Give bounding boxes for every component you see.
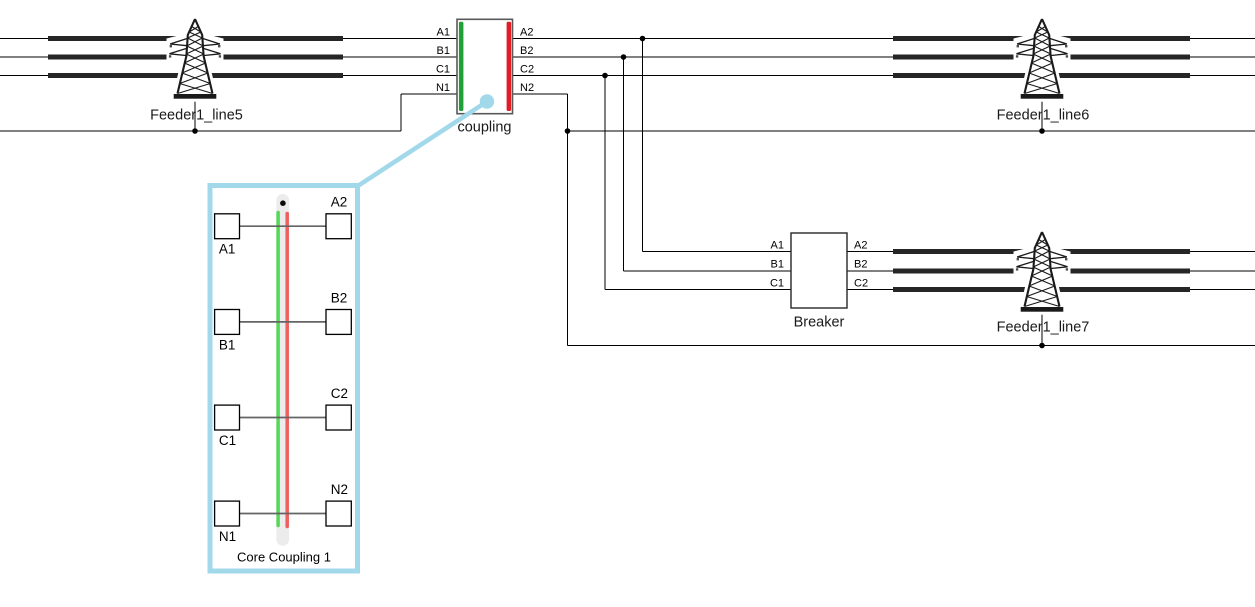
svg-text:A2: A2 <box>854 240 867 252</box>
svg-text:N1: N1 <box>219 529 236 544</box>
svg-text:B2: B2 <box>331 290 348 305</box>
svg-text:Breaker: Breaker <box>794 315 845 331</box>
svg-text:C2: C2 <box>520 64 534 76</box>
svg-text:coupling: coupling <box>457 120 511 136</box>
svg-text:B1: B1 <box>219 337 236 352</box>
svg-text:B2: B2 <box>520 45 533 57</box>
svg-text:A1: A1 <box>219 242 236 257</box>
svg-text:C1: C1 <box>219 433 236 448</box>
svg-text:B2: B2 <box>854 259 867 271</box>
svg-text:C1: C1 <box>436 64 450 76</box>
svg-text:N1: N1 <box>436 82 450 94</box>
svg-text:Core Coupling 1: Core Coupling 1 <box>237 550 331 565</box>
svg-text:A1: A1 <box>437 27 450 39</box>
svg-text:C2: C2 <box>331 386 348 401</box>
svg-text:A2: A2 <box>520 27 533 39</box>
svg-text:N2: N2 <box>331 482 348 497</box>
svg-text:Feeder1_line5: Feeder1_line5 <box>150 108 243 124</box>
svg-text:C1: C1 <box>770 278 784 290</box>
svg-text:A1: A1 <box>771 240 784 252</box>
svg-text:B1: B1 <box>437 45 450 57</box>
svg-text:Feeder1_line7: Feeder1_line7 <box>997 320 1090 336</box>
svg-text:Feeder1_line6: Feeder1_line6 <box>997 108 1090 124</box>
svg-text:A2: A2 <box>331 195 348 210</box>
svg-text:N2: N2 <box>520 82 534 94</box>
svg-text:B1: B1 <box>771 259 784 271</box>
svg-text:C2: C2 <box>854 278 868 290</box>
